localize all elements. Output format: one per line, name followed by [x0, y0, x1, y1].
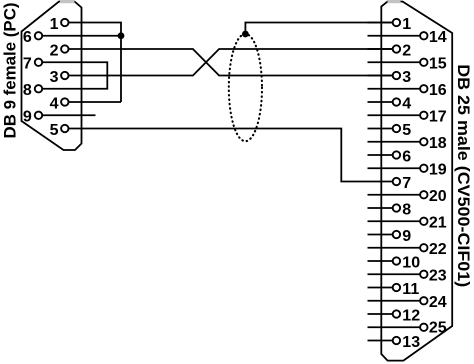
pin 25 (DB25) — [368, 319, 447, 336]
pin 14 (DB25) — [368, 29, 447, 46]
wire DB9 pin6 to tie-line — [42, 35, 121, 37]
pin 3 (DB25) — [368, 69, 412, 86]
junction dot (1-4-6 tie) — [118, 32, 125, 39]
svg-text:5: 5 — [50, 122, 59, 139]
pin 16 (DB25) — [368, 82, 447, 99]
pin 13 (DB25) — [368, 334, 421, 351]
svg-text:5: 5 — [402, 122, 411, 139]
svg-text:1: 1 — [402, 16, 411, 33]
svg-text:7: 7 — [23, 56, 32, 73]
svg-text:15: 15 — [429, 56, 447, 73]
pin 21 (DB25) — [368, 215, 447, 232]
svg-text:1: 1 — [50, 16, 59, 33]
pin 1 (DB9) — [50, 16, 69, 33]
pin 15 (DB25) — [368, 56, 447, 73]
wire DB9 pin2 to DB25 pin3 (crossover) — [69, 49, 393, 76]
svg-text:18: 18 — [429, 135, 447, 152]
svg-text:24: 24 — [429, 294, 447, 311]
svg-text:14: 14 — [429, 29, 447, 46]
svg-text:DB 9 female (PC): DB 9 female (PC) — [2, 3, 20, 139]
svg-text:7: 7 — [402, 175, 411, 192]
pin 6 (DB9) — [23, 29, 42, 46]
svg-text:23: 23 — [429, 268, 447, 285]
pin 22 (DB25) — [368, 241, 447, 258]
pin 24 (DB25) — [368, 294, 447, 311]
svg-text:21: 21 — [429, 215, 447, 232]
svg-text:9: 9 — [23, 109, 32, 126]
svg-text:17: 17 — [429, 109, 447, 126]
pin 11 (DB25) — [368, 281, 420, 298]
wire DB9 pin4 to tie-line — [69, 101, 122, 103]
pin 19 (DB25) — [368, 162, 447, 179]
svg-text:8: 8 — [402, 201, 411, 218]
pin 20 (DB25) — [368, 188, 447, 205]
wire DB9 pin3 to DB25 pin2 (crossover) — [69, 49, 393, 76]
svg-text:3: 3 — [402, 69, 411, 86]
wire shield to DB25 pin1 (FG) — [245, 23, 392, 35]
pin 2 (DB25) — [368, 42, 412, 59]
svg-text:2: 2 — [50, 42, 59, 59]
svg-text:3: 3 — [50, 69, 59, 86]
pin 2 (DB9) — [50, 42, 69, 59]
svg-text:DB 25 male (CV500-CIF01): DB 25 male (CV500-CIF01) — [454, 64, 472, 287]
pin 5 (DB25) — [368, 122, 412, 139]
pin 4 (DB25) — [368, 95, 412, 112]
svg-text:25: 25 — [429, 319, 447, 336]
svg-text:12: 12 — [402, 307, 420, 324]
wire DB9 pin7 to pin8 loopback — [42, 62, 107, 89]
svg-text:4: 4 — [402, 95, 411, 112]
pin 9 (DB9) — [23, 109, 42, 126]
svg-text:6: 6 — [402, 148, 411, 165]
pin 17 (DB25) — [368, 109, 447, 126]
svg-text:16: 16 — [429, 82, 447, 99]
pin 5 (DB9) — [50, 122, 69, 139]
pin 4 (DB9) — [50, 95, 69, 112]
svg-text:4: 4 — [50, 95, 59, 112]
pin 6 (DB25) — [368, 148, 412, 165]
svg-text:9: 9 — [402, 228, 411, 245]
shield ellipse (cable shield) — [229, 34, 262, 141]
pin 1 (DB25) — [368, 16, 412, 33]
svg-text:11: 11 — [402, 281, 419, 298]
pin 9 (DB25) — [368, 228, 412, 245]
pin 8 (DB9) — [23, 82, 42, 99]
wire DB9 pin5 to DB25 pin7 (signal ground) — [69, 129, 393, 182]
svg-text:22: 22 — [429, 241, 447, 258]
wire DB9 pin1 to tie-line (1-4-6 tie) — [69, 23, 122, 103]
connector J1 DB9 female (PC) body — [22, 0, 82, 150]
svg-text:20: 20 — [429, 188, 447, 205]
connector J2 DB25 male (CV500-CIF01) body — [381, 0, 452, 361]
svg-text:6: 6 — [23, 29, 32, 46]
pin 3 (DB9) — [50, 69, 69, 86]
pin 23 (DB25) — [368, 268, 447, 285]
svg-text:8: 8 — [23, 82, 32, 99]
svg-text:19: 19 — [429, 162, 447, 179]
pin 18 (DB25) — [368, 135, 447, 152]
pin 7 (DB9) — [23, 56, 42, 73]
svg-text:2: 2 — [402, 42, 411, 59]
pin 8 (DB25) — [368, 201, 412, 218]
svg-text:10: 10 — [402, 254, 420, 271]
svg-text:13: 13 — [402, 334, 420, 351]
junction dot (shield tap) — [242, 31, 249, 38]
pin 12 (DB25) — [368, 307, 421, 324]
pin 10 (DB25) — [368, 254, 421, 271]
pin 7 (DB25) — [393, 175, 412, 192]
wire DB9 pin9 stub (n.c.) — [42, 114, 95, 116]
